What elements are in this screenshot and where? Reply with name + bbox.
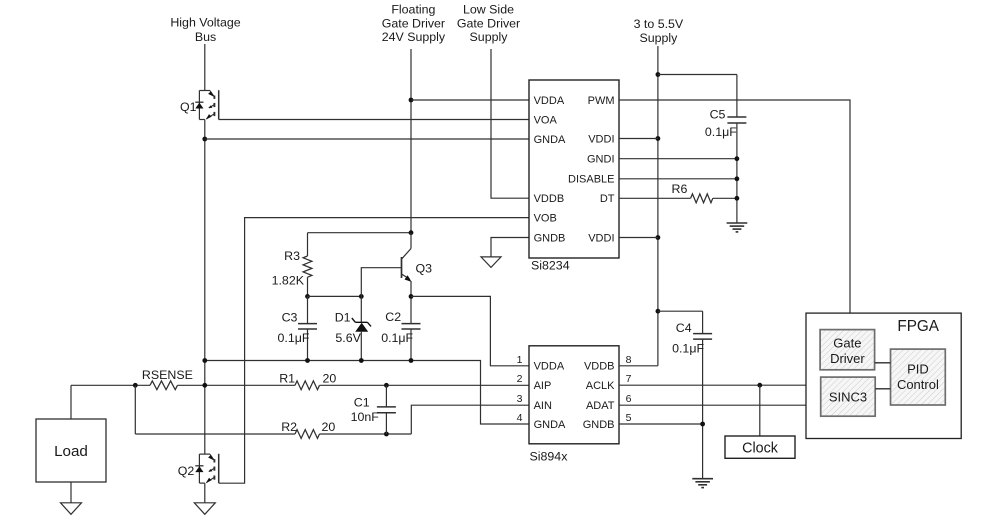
wire: VOB to Q2 gate <box>219 218 529 484</box>
wire: VDDA to Si8234 <box>411 99 529 101</box>
svg-text:Floating: Floating <box>391 3 435 17</box>
op-amp U1: Si8234 gate driver IC <box>529 80 619 258</box>
resistor RSENSE <box>150 381 178 390</box>
resistor R3 <box>303 233 312 297</box>
label R6 <box>672 182 688 196</box>
label R1 value 20 <box>323 371 337 385</box>
label Q2 <box>178 464 195 478</box>
node: VDDI2 junction <box>656 235 661 240</box>
node: GNDA junction on phase vertical <box>202 137 207 142</box>
svg-text:Clock: Clock <box>742 440 779 456</box>
node: RSENSE left junction <box>133 383 138 388</box>
label RSENSE <box>142 368 193 382</box>
svg-text:10nF: 10nF <box>351 410 380 424</box>
capacitor C4 <box>693 311 712 424</box>
svg-text:VDDI: VDDI <box>588 133 614 145</box>
wire: C4 bottom to earth ground <box>702 424 704 479</box>
wire: R2 line to AIN <box>135 405 529 434</box>
block: Clock <box>725 436 795 458</box>
node: C2 bottom junction <box>409 358 414 363</box>
op-amp U2: Si894x isolated ADC IC <box>529 346 619 444</box>
transistor Q1 (IGBT with diode) <box>195 90 218 119</box>
label C3 <box>282 311 298 325</box>
svg-text:C1: C1 <box>354 396 370 410</box>
svg-text:R1: R1 <box>279 371 295 385</box>
svg-text:VDDB: VDDB <box>584 361 615 373</box>
svg-text:GNDI: GNDI <box>587 154 615 166</box>
label: Low Side Gate Driver Supply <box>457 3 520 45</box>
svg-text:0.1μF: 0.1μF <box>705 125 737 139</box>
wire: Gate Driver to PID Control <box>875 362 891 364</box>
node: C5 rail junction <box>656 72 661 77</box>
transistor Q2 (IGBT with diode) <box>195 454 218 483</box>
wire: clock riser <box>759 385 761 436</box>
wire: sense line to AIP <box>71 384 529 386</box>
svg-text:DT: DT <box>600 193 615 205</box>
wire: SINC3 to PID Control <box>875 388 890 390</box>
ground: C4 earth ground <box>692 479 713 488</box>
block: Gate Driver (FPGA) <box>820 330 875 370</box>
svg-text:SINC3: SINC3 <box>829 390 867 405</box>
svg-text:PWM: PWM <box>588 95 615 107</box>
label: High Voltage Bus <box>170 16 240 45</box>
label C3 value 0.1uF <box>278 331 310 345</box>
wire: GNDB to ground <box>491 238 529 257</box>
wire: R6 to C5 line <box>713 197 737 199</box>
wire: DT to R6 <box>619 197 691 199</box>
block: SINC3 (FPGA) <box>821 377 876 416</box>
label R1 <box>279 371 295 385</box>
svg-text:Gate Driver: Gate Driver <box>457 16 520 30</box>
label R3 <box>284 249 300 263</box>
svg-text:1.82K: 1.82K <box>272 274 305 288</box>
wire: floating ground rail to Si894x GNDA pin 4 <box>205 361 529 425</box>
wire: Q2 emitter to ground <box>204 483 206 503</box>
wire: PWM to FPGA gate driver <box>619 100 850 330</box>
svg-text:PID: PID <box>907 361 929 376</box>
node: C1 bottom junction <box>384 432 389 437</box>
svg-text:1: 1 <box>517 354 523 366</box>
svg-text:C5: C5 <box>710 108 726 122</box>
node: junction 24V rail / supply <box>409 230 414 235</box>
pin labels Si8234 right <box>568 95 615 245</box>
wire: 3 to 5.5V supply vertical <box>657 46 659 366</box>
svg-text:20: 20 <box>323 371 337 385</box>
wire: GNDI to C5 line <box>619 158 737 160</box>
node: D1 top junction <box>359 294 364 299</box>
svg-text:Driver: Driver <box>830 351 865 366</box>
node: rail-phase junction <box>202 358 207 363</box>
svg-text:Load: Load <box>54 443 88 460</box>
node: RSENSE right junction (phase) <box>202 383 207 388</box>
svg-text:FPGA: FPGA <box>897 318 939 335</box>
svg-text:2: 2 <box>517 373 523 385</box>
svg-text:Si894x: Si894x <box>530 450 569 464</box>
label Q1 <box>180 100 197 114</box>
svg-text:6: 6 <box>626 393 632 405</box>
svg-text:VDDB: VDDB <box>534 193 565 205</box>
svg-text:R2: R2 <box>281 420 297 434</box>
capacitor C3 <box>298 296 317 360</box>
svg-text:VOA: VOA <box>534 114 558 126</box>
node: clock junction <box>757 383 762 388</box>
svg-text:0.1μF: 0.1μF <box>278 331 310 345</box>
svg-text:GNDB: GNDB <box>534 232 566 244</box>
svg-text:AIN: AIN <box>534 400 552 412</box>
svg-text:DISABLE: DISABLE <box>568 174 614 186</box>
wire: phase node vertical (Q1 source to Q2 drain) <box>204 120 206 455</box>
svg-text:0.1μF: 0.1μF <box>381 331 413 345</box>
wire: C4 rail <box>658 310 703 312</box>
wire: RSENSE left riser to R2 line <box>134 385 136 434</box>
label: Floating Gate Driver 24V Supply <box>382 3 446 45</box>
svg-text:Si8234: Si8234 <box>531 259 570 273</box>
svg-text:24V Supply: 24V Supply <box>382 30 446 44</box>
wire: VOA to Q1 gate <box>219 119 529 121</box>
pin numbers Si894x left 1-4 <box>517 354 523 424</box>
ground: GNDB ground <box>481 257 501 268</box>
svg-text:VDDA: VDDA <box>534 361 565 373</box>
label R3 value 1.82K <box>272 274 305 288</box>
svg-text:ACLK: ACLK <box>586 380 615 392</box>
resistor R2 <box>295 430 320 439</box>
label C1 <box>354 396 370 410</box>
pin labels Si8234 left <box>534 95 566 245</box>
wire: GNDA to Si8234 <box>205 138 529 140</box>
svg-text:20: 20 <box>322 420 336 434</box>
node: Q3 emitter junction <box>409 294 414 299</box>
resistor R6 <box>691 194 713 203</box>
wire: VDDB pin8 to supply <box>619 365 658 367</box>
svg-text:Bus: Bus <box>195 30 216 44</box>
svg-text:VOB: VOB <box>534 213 557 225</box>
svg-text:Q2: Q2 <box>178 464 195 478</box>
wire: GNDB pin5 to C4 line <box>619 423 703 425</box>
label C5 <box>710 108 726 122</box>
capacitor C2 <box>402 296 421 360</box>
block: PID Control (FPGA) <box>891 349 946 405</box>
node: C1 top junction <box>384 383 389 388</box>
wire: floating 24V supply vertical <box>410 49 412 233</box>
label C2 value 0.1uF <box>381 331 413 345</box>
svg-text:7: 7 <box>626 373 632 385</box>
svg-text:C2: C2 <box>385 310 401 324</box>
label C5 value 0.1uF <box>705 125 737 139</box>
wire: Load bottom to ground <box>70 482 72 503</box>
svg-text:Gate: Gate <box>833 335 861 350</box>
svg-text:GNDB: GNDB <box>583 419 615 431</box>
svg-text:Supply: Supply <box>470 30 509 44</box>
label C4 value 0.1uF <box>672 342 704 356</box>
capacitor C1 <box>377 385 396 434</box>
label C2 <box>385 310 401 324</box>
svg-text:R6: R6 <box>672 182 688 196</box>
label Q3 <box>416 262 433 276</box>
svg-text:High Voltage: High Voltage <box>170 16 240 30</box>
node: C3 bottom junction <box>305 358 310 363</box>
svg-text:5.6V: 5.6V <box>335 331 361 345</box>
wire: low side supply to VDDB <box>491 49 529 198</box>
svg-text:AIP: AIP <box>534 380 552 392</box>
node: DT junction <box>735 196 740 201</box>
svg-text:8: 8 <box>626 354 632 366</box>
wire: high voltage bus vertical <box>204 44 206 91</box>
svg-text:Q3: Q3 <box>416 262 433 276</box>
ground: C5 earth ground <box>727 223 748 232</box>
label Si894x <box>530 450 569 464</box>
pin numbers Si894x right 5-8 <box>626 354 632 424</box>
ground: Load ground <box>61 503 82 515</box>
ground: Q2 ground <box>194 503 215 515</box>
wire: VDDI to supply <box>619 138 658 140</box>
svg-text:3 to 5.5V: 3 to 5.5V <box>634 17 684 31</box>
svg-text:C3: C3 <box>282 311 298 325</box>
transistor Q3 <box>402 233 412 297</box>
wire: Q3 base connection <box>361 268 401 297</box>
node: GNDB junction <box>700 422 705 427</box>
resistor R1 <box>295 381 320 390</box>
label C4 <box>676 321 692 335</box>
wire: ACLK to SINC3 <box>619 384 821 386</box>
svg-text:ADAT: ADAT <box>586 400 615 412</box>
label: 3 to 5.5V Supply <box>634 17 684 45</box>
wire: Load top to sense line <box>70 385 72 419</box>
node: D1 bottom junction <box>359 358 364 363</box>
label D1 value 5.6V <box>335 331 361 345</box>
svg-text:D1: D1 <box>335 311 351 325</box>
pin labels Si894x right <box>583 361 615 431</box>
wire: 24V rail to R3 top <box>308 232 412 234</box>
svg-text:GNDA: GNDA <box>534 134 566 146</box>
svg-text:5: 5 <box>626 412 632 424</box>
svg-text:C4: C4 <box>676 321 692 335</box>
svg-text:4: 4 <box>517 412 523 424</box>
block: Load <box>36 419 106 482</box>
label C1 value 10nF <box>351 410 380 424</box>
wire: DISABLE to C5 line <box>619 178 737 180</box>
node: GNDI junction <box>735 156 740 161</box>
pin labels Si894x left <box>534 361 566 431</box>
label R2 value 20 <box>322 420 336 434</box>
block: FPGA <box>806 313 961 438</box>
svg-text:Low Side: Low Side <box>463 3 514 17</box>
svg-text:3: 3 <box>517 393 523 405</box>
node: VDDA junction on 24V supply <box>409 98 414 103</box>
svg-text:RSENSE: RSENSE <box>142 368 193 382</box>
zener diode D1 <box>352 296 371 360</box>
label D1 <box>335 311 351 325</box>
wire: VDDI bottom to supply <box>619 237 658 239</box>
label R2 <box>281 420 297 434</box>
svg-text:R3: R3 <box>284 249 300 263</box>
node: DISABLE junction <box>735 176 740 181</box>
svg-text:VDDI: VDDI <box>588 232 614 244</box>
capacitor C5 <box>727 75 746 224</box>
svg-text:0.1μF: 0.1μF <box>672 342 704 356</box>
svg-text:Control: Control <box>897 377 939 392</box>
svg-text:GNDA: GNDA <box>534 419 566 431</box>
label Si8234 <box>531 259 570 273</box>
svg-text:Q1: Q1 <box>180 100 197 114</box>
wire: ADAT to SINC3 <box>619 404 821 406</box>
wire: C5 rail <box>658 74 737 76</box>
svg-text:Gate Driver: Gate Driver <box>382 16 445 30</box>
node: VDDI junction <box>656 136 661 141</box>
svg-text:Supply: Supply <box>639 31 678 45</box>
node: R3 bottom junction <box>305 294 310 299</box>
wire: base node rail <box>308 295 362 297</box>
node: C4 rail junction <box>656 309 661 314</box>
svg-text:VDDA: VDDA <box>534 95 565 107</box>
wire: 5V node to Si894x VDDA pin 1 <box>411 296 529 365</box>
